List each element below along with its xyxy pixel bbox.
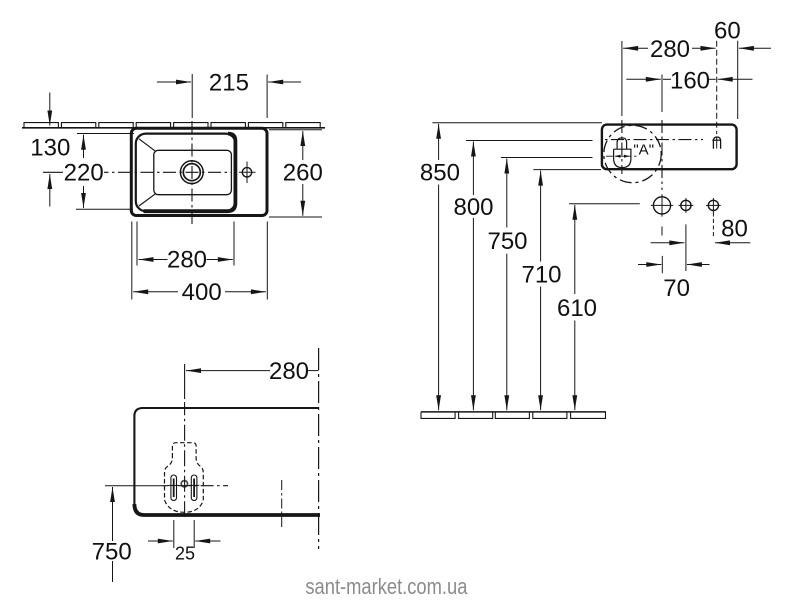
tap hole centerline dashed (716, 41, 718, 134)
dim 280 right view (623, 47, 648, 49)
dim 280 bottom (186, 370, 270, 372)
bowl corner diagonal bottom-left (139, 194, 156, 206)
drain hole circle (653, 197, 670, 214)
hole ext line (569, 203, 640, 205)
dim 800 (466, 140, 593, 142)
drain centerline vertical (191, 121, 193, 226)
dim 750 bottom (112, 487, 114, 541)
svg-text:610: 610 (557, 295, 597, 322)
svg-text:280: 280 (650, 36, 690, 63)
fixing slot left (171, 475, 177, 501)
fixing hole centerline (621, 41, 623, 116)
svg-text:710: 710 (521, 262, 561, 289)
fixing slot right (191, 475, 197, 501)
svg-text:280: 280 (167, 246, 207, 273)
dim 260 (269, 129, 322, 131)
svg-text:850: 850 (420, 160, 460, 187)
fixing screw left (173, 479, 175, 498)
svg-text:215: 215 (209, 69, 249, 96)
dim 25 (173, 520, 175, 548)
bowl rim (136, 134, 236, 212)
basin outline plan view (131, 128, 267, 215)
dim 850 (433, 122, 602, 124)
detail circle A (604, 125, 661, 182)
dim 220 (77, 133, 134, 135)
bowl flat bottom (154, 150, 232, 194)
dim 610 (574, 205, 576, 294)
dim 400 (131, 222, 133, 300)
tap hole (242, 168, 251, 177)
dim 280 plan (136, 222, 138, 266)
short chain line (281, 480, 283, 530)
fixing hole detail keyhole (617, 138, 627, 149)
drain hole centerline (661, 75, 663, 113)
trap centerline horizontal (105, 485, 163, 487)
drain circle bottom view (181, 481, 187, 487)
floor tiles (421, 412, 455, 419)
svg-text:400: 400 (182, 279, 222, 306)
drain outer circle (180, 161, 203, 184)
svg-text:160: 160 (670, 67, 710, 94)
fixing screw right (193, 479, 195, 498)
floor line (421, 411, 606, 413)
svg-text:220: 220 (64, 159, 104, 186)
basin outline right view (602, 125, 737, 170)
fixing hole circle 1 (681, 200, 691, 210)
dim 130 (49, 93, 51, 126)
ext line 60 right (737, 41, 739, 119)
dim 710 (533, 169, 601, 171)
wall line (22, 127, 325, 129)
dim 80 (712, 213, 714, 237)
drain inner circle (183, 164, 200, 181)
dim 60 (739, 47, 771, 49)
fixing hole circle 2 (708, 200, 718, 210)
bottom view outline (134, 408, 318, 505)
svg-text:130: 130 (30, 134, 70, 161)
trap centerline vertical (184, 364, 186, 399)
dim 750 right (501, 157, 593, 159)
dim 215 (191, 74, 193, 118)
drain centerline horizontal (43, 171, 63, 173)
bowl corner diagonal top-left (139, 139, 156, 152)
dim 70 (685, 224, 687, 271)
wall tiles (24, 123, 58, 128)
svg-text:70: 70 (663, 275, 690, 302)
svg-text:280: 280 (269, 358, 309, 385)
tap symbol (713, 137, 720, 149)
bottom view thick lower edge (134, 504, 320, 515)
bowl shadow edge (144, 134, 236, 212)
section chain line (318, 348, 320, 549)
svg-text:"A": "A" (633, 141, 654, 158)
svg-text:750: 750 (92, 539, 132, 566)
svg-text:800: 800 (453, 194, 493, 221)
svg-text:sant-market.com.ua: sant-market.com.ua (305, 574, 467, 599)
dim 160 (663, 78, 671, 80)
svg-text:260: 260 (283, 160, 323, 187)
svg-text:60: 60 (714, 17, 741, 44)
svg-text:25: 25 (175, 544, 195, 564)
siphon trap hidden outline (165, 443, 204, 513)
basin centerline horizontal (605, 139, 703, 141)
svg-text:80: 80 (721, 216, 748, 243)
svg-text:750: 750 (487, 228, 527, 255)
